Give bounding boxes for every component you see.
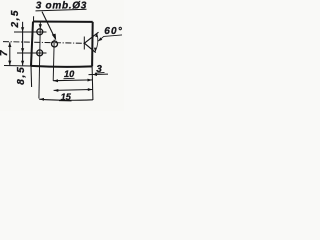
svg-text:15: 15 <box>61 92 72 102</box>
svg-text:8,5: 8,5 <box>16 67 27 85</box>
svg-text:10: 10 <box>64 69 75 79</box>
svg-text:60°: 60° <box>104 26 123 37</box>
svg-text:3: 3 <box>96 64 102 75</box>
svg-text:2,5: 2,5 <box>10 10 21 28</box>
svg-text:3 omb.Ø3: 3 omb.Ø3 <box>36 0 87 11</box>
